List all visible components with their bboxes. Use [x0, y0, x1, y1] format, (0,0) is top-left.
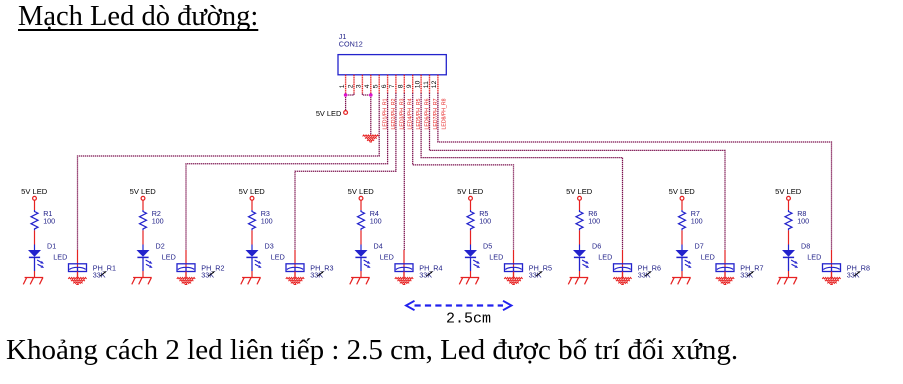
- photoresistor PH_R3: [286, 264, 304, 272]
- svg-text:100: 100: [479, 217, 491, 226]
- wire 5V to resistor R6: [579, 201, 581, 211]
- wire LED D1 to ground: [34, 271, 36, 278]
- wire net LED2/PH_R2 from pin 6 to block 2: [186, 93, 388, 250]
- ground (connector): [363, 135, 379, 142]
- svg-text:5V LED: 5V LED: [775, 187, 802, 196]
- wire 5V to resistor R1: [34, 201, 36, 211]
- label D3 LED: [265, 242, 285, 262]
- wire pin3 jog to pin4: [362, 94, 370, 96]
- label PH_R5 33K: [529, 263, 552, 279]
- power node circle 5V LED block 5: [469, 196, 473, 200]
- wire into photoresistor PH_R3: [294, 250, 296, 278]
- svg-text:6: 6: [381, 84, 388, 88]
- svg-text:100: 100: [152, 217, 164, 226]
- svg-text:5V LED: 5V LED: [130, 187, 157, 196]
- LED D1: [28, 250, 44, 271]
- wire into photoresistor PH_R2: [185, 250, 187, 278]
- J1 pin number 9: [406, 84, 413, 88]
- wire photoresistor PH_R8 to ground: [831, 272, 833, 278]
- net label LED5/PH_R5: [416, 98, 422, 129]
- label D2 LED: [156, 242, 176, 262]
- net label LED3/PH_R3: [399, 98, 405, 129]
- svg-text:100: 100: [797, 217, 809, 226]
- net label LED8/PH_R8: [441, 98, 447, 129]
- label PH_R8 33K: [847, 263, 870, 279]
- svg-text:2: 2: [347, 84, 354, 88]
- wire photoresistor PH_R7 to ground: [724, 272, 726, 278]
- svg-text:D1: D1: [47, 242, 56, 251]
- J1 pin 5 stub: [378, 75, 380, 94]
- label 5V LED block 3: [239, 187, 266, 196]
- resistor R5: [467, 210, 474, 230]
- wire photoresistor PH_R2 to ground: [185, 272, 187, 278]
- svg-text:5V LED: 5V LED: [239, 187, 266, 196]
- J1 pin 2 stub: [353, 75, 355, 94]
- ground under PH_R3: [286, 277, 304, 284]
- label 5V LED block 1: [21, 187, 48, 196]
- wire pin1 down to 5V LED node: [345, 93, 347, 110]
- LED D7: [676, 250, 692, 271]
- resistor R1: [31, 210, 38, 230]
- connector J1 CON12 reference labels: [339, 32, 363, 48]
- svg-text:10: 10: [414, 80, 421, 88]
- net label LED7/PH_R7: [433, 98, 439, 129]
- LED D5: [464, 250, 480, 271]
- LED D8: [782, 250, 798, 271]
- ground under LED D1: [23, 278, 43, 285]
- svg-text:LED: LED: [162, 253, 176, 262]
- svg-text:LED: LED: [807, 253, 821, 262]
- junction node pins 1-2: [344, 93, 348, 97]
- ground under LED D5: [459, 278, 479, 285]
- wire net LED3/PH_R3 from pin 7 to block 3: [295, 93, 396, 250]
- label R2 100: [152, 209, 164, 225]
- J1 pin 7 stub: [395, 75, 397, 94]
- label D7 LED: [695, 242, 715, 262]
- resistor R2: [140, 210, 147, 230]
- label PH_R3 33K: [310, 263, 333, 279]
- svg-text:LED: LED: [53, 253, 67, 262]
- wire resistor to LED D1: [34, 230, 36, 250]
- power node circle 5V LED block 7: [680, 196, 684, 200]
- J1 pin number 1: [339, 84, 346, 88]
- label R8 100: [797, 209, 809, 225]
- svg-text:LED: LED: [380, 253, 394, 262]
- svg-text:D8: D8: [801, 242, 810, 251]
- wire pin2 jog to pin1: [346, 94, 354, 96]
- svg-text:9: 9: [406, 84, 413, 88]
- power node circle 5V LED block 6: [578, 196, 582, 200]
- wire 5V to resistor R8: [788, 201, 790, 211]
- power node circle 5V LED block 3: [250, 196, 254, 200]
- wire LED D6 to ground: [579, 271, 581, 278]
- svg-text:5: 5: [373, 84, 380, 88]
- dimension arrow 2.5cm: [406, 301, 512, 310]
- label R1 100: [43, 209, 55, 225]
- resistor R4: [358, 210, 365, 230]
- ground under PH_R1: [68, 277, 86, 284]
- svg-text:D4: D4: [374, 242, 383, 251]
- photoresistor PH_R8: [823, 264, 841, 272]
- wire resistor to LED D5: [470, 230, 472, 250]
- wire resistor to LED D2: [142, 230, 144, 250]
- wire resistor to LED D8: [788, 230, 790, 250]
- power node circle 5V LED: [344, 111, 348, 115]
- label R4 100: [370, 209, 382, 225]
- power node circle 5V LED block 1: [33, 196, 37, 200]
- wire photoresistor PH_R4 to ground: [403, 272, 405, 278]
- J1 pin number 8: [398, 84, 405, 88]
- photoresistor PH_R1: [69, 264, 87, 272]
- label 5V LED block 4: [348, 187, 375, 196]
- ground under PH_R5: [504, 277, 522, 284]
- svg-text:5V LED: 5V LED: [21, 187, 48, 196]
- J1 pin number 11: [423, 81, 430, 88]
- svg-text:1: 1: [339, 84, 346, 88]
- ground under PH_R7: [716, 277, 734, 284]
- svg-text:LED: LED: [271, 253, 285, 262]
- J1 pin 6 stub: [387, 75, 389, 94]
- svg-text:5V LED: 5V LED: [669, 187, 696, 196]
- wire into photoresistor PH_R7: [724, 250, 726, 278]
- label 5V LED block 2: [130, 187, 157, 196]
- power node circle 5V LED block 4: [359, 196, 363, 200]
- wire net LED4/PH_R4 from pin 8 to block 4: [403, 93, 405, 250]
- label 5V LED block 7: [669, 187, 696, 196]
- J1 pin 8 stub: [403, 75, 405, 94]
- photoresistor PH_R2: [177, 264, 195, 272]
- svg-text:D2: D2: [156, 242, 165, 251]
- svg-text:LED: LED: [701, 253, 715, 262]
- ground under PH_R6: [613, 277, 631, 284]
- ground under PH_R8: [822, 277, 840, 284]
- wire photoresistor PH_R3 to ground: [294, 272, 296, 278]
- LED D4: [355, 250, 371, 271]
- wire into photoresistor PH_R4: [403, 250, 405, 278]
- wire into photoresistor PH_R1: [77, 250, 79, 278]
- wire net LED5/PH_R5 from pin 9 to block 5: [413, 93, 514, 250]
- wire LED D5 to ground: [470, 271, 472, 278]
- wire resistor to LED D3: [251, 230, 253, 250]
- net label LED6/PH_R6: [425, 98, 431, 129]
- label D5 LED: [483, 242, 503, 262]
- J1 pin number 3: [356, 84, 363, 88]
- wire LED D7 to ground: [681, 271, 683, 278]
- svg-text:100: 100: [261, 217, 273, 226]
- wire photoresistor PH_R5 to ground: [513, 272, 515, 278]
- bottom caption: [6, 334, 738, 367]
- wire 5V to resistor R4: [360, 201, 362, 211]
- title: Mach Led do duong: [18, 1, 258, 33]
- svg-text:CON12: CON12: [339, 40, 363, 49]
- ground under PH_R4: [395, 277, 413, 284]
- svg-text:100: 100: [588, 217, 600, 226]
- net label LED1/PH_R1: [383, 98, 389, 129]
- label PH_R2 33K: [201, 263, 224, 279]
- ground under LED D6: [568, 278, 588, 285]
- svg-text:7: 7: [389, 84, 396, 88]
- J1 pin number 6: [381, 84, 388, 88]
- J1 pin number 4: [364, 84, 371, 88]
- svg-text:D3: D3: [265, 242, 274, 251]
- wire photoresistor PH_R6 to ground: [622, 272, 624, 278]
- J1 pin number 12: [431, 80, 438, 88]
- photoresistor PH_R4: [395, 264, 413, 272]
- svg-text:LED: LED: [489, 253, 503, 262]
- wire LED D3 to ground: [251, 271, 253, 278]
- wire into photoresistor PH_R6: [622, 250, 624, 278]
- wire resistor to LED D6: [579, 230, 581, 250]
- label D6 LED: [592, 242, 612, 262]
- svg-text:8: 8: [398, 84, 405, 88]
- photoresistor PH_R6: [614, 264, 632, 272]
- label 2.5cm: [446, 311, 491, 328]
- power node circle 5V LED block 8: [787, 196, 791, 200]
- label D4 LED: [374, 242, 394, 262]
- power node circle 5V LED block 2: [141, 196, 145, 200]
- wire net LED7/PH_R7 from pin 11 to block 7: [430, 93, 726, 250]
- svg-text:4: 4: [364, 84, 371, 88]
- ground under LED D4: [350, 278, 370, 285]
- label D1 LED: [47, 242, 67, 262]
- photoresistor PH_R5: [505, 264, 523, 272]
- LED D6: [573, 250, 589, 271]
- ground under LED D2: [132, 278, 152, 285]
- wire resistor to LED D4: [360, 230, 362, 250]
- J1 pin 9 stub: [412, 75, 414, 94]
- svg-text:3: 3: [356, 84, 363, 88]
- wire LED D2 to ground: [142, 271, 144, 278]
- resistor R6: [576, 210, 583, 230]
- wire 5V to resistor R2: [142, 201, 144, 211]
- wire net LED1/PH_R1 from pin 5 to block 1: [78, 93, 380, 250]
- label PH_R7 33K: [740, 263, 763, 279]
- label R6 100: [588, 209, 600, 225]
- svg-text:D6: D6: [592, 242, 601, 251]
- svg-text:11: 11: [423, 81, 430, 88]
- svg-text:100: 100: [43, 217, 55, 226]
- label R7 100: [691, 209, 703, 225]
- photoresistor PH_R7: [716, 264, 734, 272]
- ground under LED D3: [241, 278, 261, 285]
- ground under LED D8: [777, 278, 797, 285]
- J1 pin 10 stub: [420, 75, 422, 94]
- wire 5V to resistor R7: [681, 201, 683, 211]
- wire photoresistor PH_R1 to ground: [77, 272, 79, 278]
- J1 pin 12 stub: [437, 75, 439, 94]
- LED D3: [246, 250, 262, 271]
- svg-text:D7: D7: [695, 242, 704, 251]
- junction node pins 3-4: [369, 93, 373, 97]
- J1 pin 11 stub: [429, 75, 431, 94]
- label D8 LED: [801, 242, 821, 262]
- svg-text:5V LED: 5V LED: [316, 109, 341, 118]
- svg-text:5V LED: 5V LED: [566, 187, 593, 196]
- svg-text:100: 100: [691, 217, 703, 226]
- resistor R8: [785, 210, 792, 230]
- svg-text:5V LED: 5V LED: [348, 187, 375, 196]
- svg-text:LED8/PH_R8: LED8/PH_R8: [441, 98, 447, 129]
- J1 pin number 10: [414, 80, 421, 88]
- label 5V LED block 5: [457, 187, 484, 196]
- label 5V LED block 8: [775, 187, 802, 196]
- wire resistor to LED D7: [681, 230, 683, 250]
- net label LED2/PH_R2: [391, 98, 397, 129]
- svg-text:100: 100: [370, 217, 382, 226]
- label 5V LED (connector): [316, 109, 341, 118]
- ground under PH_R2: [177, 277, 195, 284]
- wire 5V to resistor R3: [251, 201, 253, 211]
- J1 pin number 2: [347, 84, 354, 88]
- wire net LED8/PH_R8 from pin 12 to block 8: [438, 93, 832, 250]
- LED D2: [137, 250, 153, 271]
- wire pin4 down to ground: [370, 93, 372, 135]
- J1 pin 4 stub: [370, 75, 372, 94]
- svg-text:5V LED: 5V LED: [457, 187, 484, 196]
- wire 5V to resistor R5: [470, 201, 472, 211]
- resistor R3: [249, 210, 256, 230]
- svg-text:LED: LED: [598, 253, 612, 262]
- svg-text:2.5cm: 2.5cm: [446, 311, 491, 328]
- label PH_R4 33K: [419, 263, 442, 279]
- label R5 100: [479, 209, 491, 225]
- wire LED D8 to ground: [788, 271, 790, 278]
- net label LED4/PH_R4: [408, 98, 414, 129]
- connector J1 body: [338, 55, 446, 75]
- J1 pin 1 stub: [345, 75, 347, 94]
- ground under LED D7: [671, 278, 691, 285]
- J1 pin number 5: [373, 84, 380, 88]
- resistor R7: [679, 210, 686, 230]
- wire net LED6/PH_R6 from pin 10 to block 6: [421, 93, 622, 250]
- label PH_R1 33K: [93, 263, 116, 279]
- label PH_R6 33K: [638, 263, 661, 279]
- J1 pin 3 stub: [361, 75, 363, 94]
- wire LED D4 to ground: [360, 271, 362, 278]
- svg-text:12: 12: [431, 80, 438, 88]
- label R3 100: [261, 209, 273, 225]
- wire into photoresistor PH_R5: [513, 250, 515, 278]
- svg-text:D5: D5: [483, 242, 492, 251]
- wire into photoresistor PH_R8: [831, 250, 833, 278]
- label 5V LED block 6: [566, 187, 593, 196]
- J1 pin number 7: [389, 84, 396, 88]
